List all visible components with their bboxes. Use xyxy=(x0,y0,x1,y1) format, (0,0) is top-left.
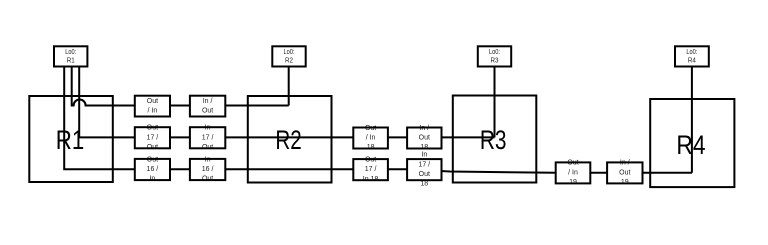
svg-text:Out: Out xyxy=(419,135,430,142)
svg-text:Out: Out xyxy=(619,169,630,176)
svg-text:Lo0:: Lo0: xyxy=(489,49,500,56)
svg-text:R2: R2 xyxy=(275,125,301,155)
svg-text:In: In xyxy=(421,152,427,159)
svg-text:16 /: 16 / xyxy=(147,166,159,173)
svg-text:/ In: / In xyxy=(568,169,578,176)
svg-text:Out: Out xyxy=(147,98,158,105)
svg-text:16 /: 16 / xyxy=(202,166,214,173)
svg-text:17 /: 17 / xyxy=(418,161,430,168)
svg-text:Out: Out xyxy=(202,107,213,114)
svg-text:Lo0:: Lo0: xyxy=(686,49,697,56)
svg-text:17 /: 17 / xyxy=(365,166,377,173)
svg-text:Lo0:: Lo0: xyxy=(284,49,295,56)
svg-text:18: 18 xyxy=(420,181,428,188)
svg-text:R3: R3 xyxy=(491,58,499,65)
svg-text:/ In: / In xyxy=(366,135,376,142)
svg-text:In /: In / xyxy=(203,98,213,105)
svg-text:17 /: 17 / xyxy=(202,134,214,141)
svg-text:R1: R1 xyxy=(67,58,75,65)
svg-text:R4: R4 xyxy=(688,58,696,65)
svg-text:17 /: 17 / xyxy=(147,134,159,141)
svg-text:R2: R2 xyxy=(285,58,293,65)
svg-text:/ In: / In xyxy=(148,107,158,114)
svg-text:Out: Out xyxy=(419,171,430,178)
svg-text:R3: R3 xyxy=(480,125,507,155)
svg-text:Lo0:: Lo0: xyxy=(65,49,76,56)
